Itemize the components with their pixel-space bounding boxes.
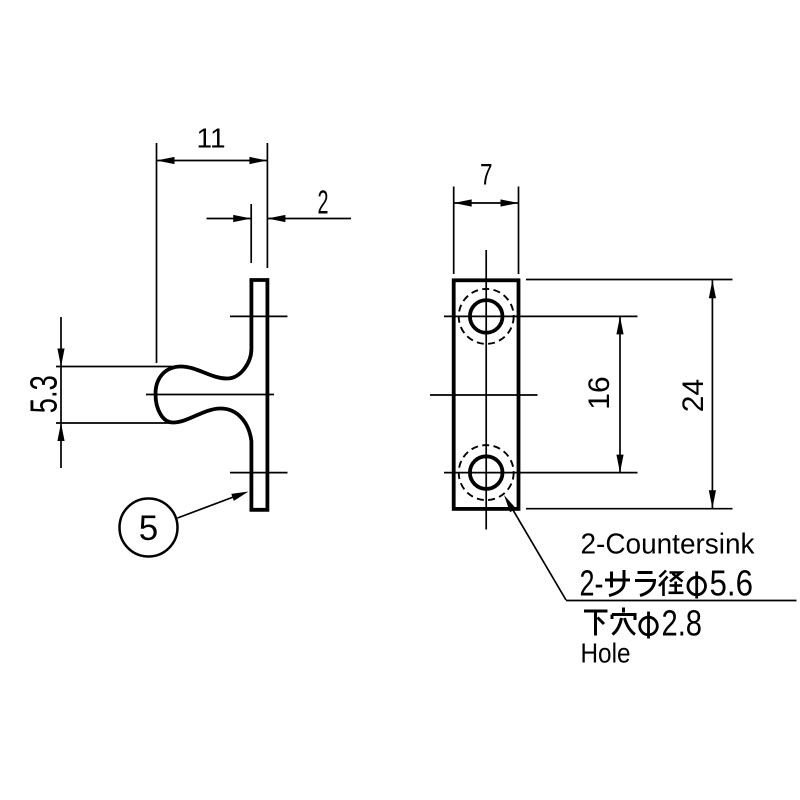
note line 3: phi symbol — [640, 612, 658, 639]
svg-text:7: 7 — [480, 159, 493, 192]
svg-text:24: 24 — [677, 379, 710, 412]
dimension 24: arrowhead top — [709, 280, 716, 298]
balloon 5: circle — [120, 499, 178, 557]
svg-text:2.8: 2.8 — [662, 603, 703, 644]
hole note leader: horizontal reference line — [566, 600, 797, 602]
svg-text:16: 16 — [583, 376, 616, 409]
dimension 7: extension line left — [453, 187, 455, 275]
dimension 24: arrowhead bottom — [709, 490, 716, 508]
svg-text:5.3: 5.3 — [24, 375, 66, 413]
dimension 11: extension line left — [156, 143, 158, 363]
dimension 7: dimension line — [454, 202, 519, 204]
dimension 16: arrowhead top — [616, 316, 623, 334]
dimension 7: extension line right — [518, 187, 520, 275]
svg-text:2-: 2- — [580, 563, 604, 604]
note line 2: katakana sa — [605, 570, 630, 596]
hole note leader: diagonal — [508, 502, 566, 601]
note line 3: kanji ana (hole) — [612, 608, 635, 635]
svg-text:5.6: 5.6 — [710, 563, 754, 604]
svg-text:11: 11 — [196, 123, 225, 154]
dimension 16: dimension line — [619, 316, 621, 472]
dimension 24: extension line top — [526, 279, 733, 281]
note line 3: kanji shita (under) — [584, 611, 608, 636]
dimension 2: extension line (left face) — [250, 204, 252, 263]
dimension 5.3: dimension line — [60, 317, 62, 468]
dimension 7: arrowhead right — [501, 199, 519, 206]
bottom hole: pilot hole circle — [470, 456, 503, 489]
hole note leader: arrowhead — [504, 495, 516, 512]
svg-text:2: 2 — [318, 183, 329, 220]
bottom hole centerline — [444, 472, 638, 474]
dimension 5.3: arrowhead pointing up — [57, 423, 64, 441]
dimension 5.3: arrowhead pointing down — [57, 349, 64, 367]
vertical centerline — [485, 250, 487, 530]
svg-text:2-Countersink: 2-Countersink — [581, 529, 755, 561]
dimension 2: right tail — [267, 218, 351, 220]
centerline tick at middle height (side view) — [146, 394, 274, 396]
dimension 5.3: extension line bottom — [56, 422, 174, 424]
top hole: pilot hole circle — [470, 300, 503, 333]
balloon 5: leader arrowhead — [231, 492, 248, 501]
top hole centerline — [444, 315, 638, 317]
dimension 2: left tail — [207, 218, 252, 220]
dimension 11: arrowhead right — [249, 157, 267, 164]
balloon 5: leader line — [178, 493, 245, 518]
front plate rectangle — [454, 280, 519, 509]
middle horizontal centerline — [430, 394, 538, 396]
top hole: countersink circle (dashed) — [459, 289, 514, 344]
centerline tick at top hole height (side view) — [230, 315, 288, 317]
dimension 16: arrowhead bottom — [616, 455, 623, 473]
dimension 2: arrowhead pointing right — [233, 215, 251, 222]
part outline: plate with formed lip (side view) — [156, 280, 268, 510]
dimension 5.3: extension line top — [56, 366, 172, 368]
dimension 11: extension line right — [266, 143, 268, 268]
bottom hole: countersink circle (dashed) — [459, 445, 514, 500]
svg-text:5: 5 — [139, 509, 158, 548]
note line 2: phi symbol — [688, 572, 706, 599]
note line 2: kanji kei (diameter) — [659, 571, 684, 597]
note line 2: katakana ra — [635, 573, 655, 596]
dimension 24: extension line bottom — [526, 508, 733, 510]
centerline tick at bottom hole height (side view) — [230, 472, 288, 474]
dimension 2: arrowhead pointing left — [267, 215, 285, 222]
dimension 11: dimension line — [157, 160, 268, 162]
dimension 11: arrowhead left — [157, 157, 175, 164]
svg-text:Hole: Hole — [581, 638, 631, 669]
dimension 7: arrowhead left — [454, 199, 472, 206]
dimension 24: dimension line — [711, 280, 713, 508]
